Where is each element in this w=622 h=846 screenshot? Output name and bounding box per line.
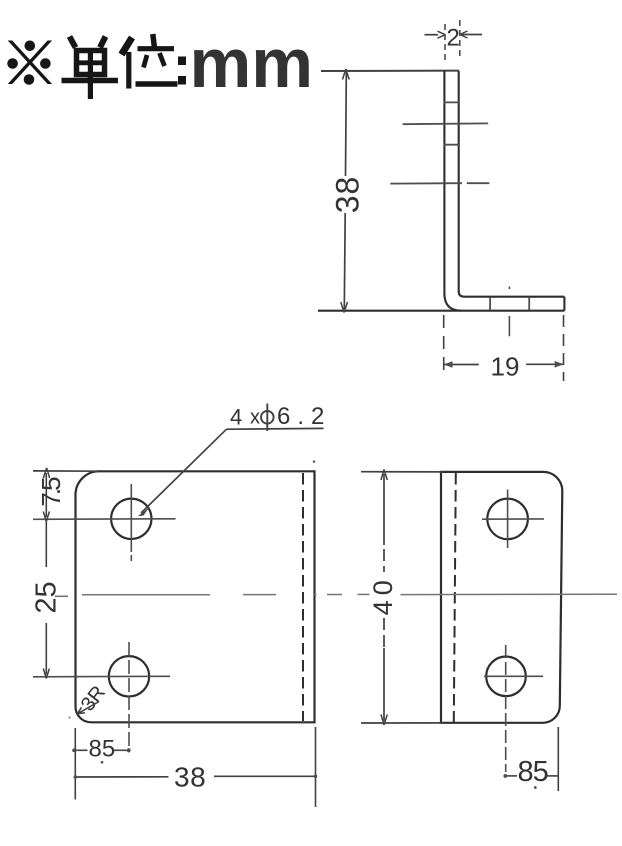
hole 4	[486, 657, 526, 697]
web tick 1	[444, 101, 460, 103]
web cross line 1	[403, 122, 489, 125]
leg top line	[464, 296, 564, 298]
svg-text:38: 38	[174, 762, 206, 793]
bend line dashed	[302, 473, 304, 721]
hole 1	[111, 499, 151, 539]
web tick 2	[444, 144, 460, 146]
svg-text:x: x	[250, 407, 260, 429]
speck	[313, 460, 316, 463]
plate centre line	[401, 593, 618, 595]
title colon	[178, 57, 186, 85]
hole 2	[109, 656, 149, 696]
title mark ※	[7, 41, 52, 85]
svg-text:40: 40	[368, 575, 398, 615]
top extension line	[321, 70, 459, 72]
svg-text:7.5: 7.5	[36, 477, 66, 507]
hole 2 vertical centre line	[128, 642, 130, 746]
svg-text:85: 85	[89, 736, 116, 763]
hole 3 vertical centre line	[507, 490, 509, 549]
top extension line	[33, 470, 98, 472]
svg-text:19: 19	[491, 352, 520, 382]
leg bottom line with baseline extension	[318, 310, 564, 312]
dimension 38 (height)	[329, 69, 365, 313]
hole 4 vertical centre line	[505, 645, 507, 772]
plate centre line	[55, 595, 68, 597]
hole 4 horizontal centre line	[484, 675, 543, 677]
dimension 19 (leg length)	[444, 315, 564, 382]
leg tick 1	[489, 297, 491, 310]
svg-text:85: 85	[518, 756, 548, 788]
dimension 2 (web thickness)	[425, 20, 483, 64]
leg tick 2	[528, 297, 530, 310]
hole 1 vertical centre line	[130, 484, 132, 552]
svg-text:6.2: 6.2	[277, 403, 331, 430]
hole callout 4xφ6.2	[138, 403, 332, 516]
dimension 38 bottom	[74, 727, 318, 807]
bend inner curve	[459, 292, 465, 297]
hole 3 horizontal centre line	[482, 518, 544, 520]
bottom extension line	[361, 722, 444, 724]
hole 3	[487, 499, 528, 540]
title kanji 単	[62, 37, 119, 100]
hole 2 horizontal centre line	[33, 675, 170, 678]
hole 1 horizontal centre line	[33, 518, 176, 521]
plate outline	[441, 472, 562, 723]
dimension 8.5 left	[72, 736, 130, 764]
svg-text:25: 25	[31, 581, 63, 613]
dimension 40	[368, 470, 398, 726]
dimension 7.5	[36, 468, 66, 522]
bend outer curve	[444, 294, 461, 311]
svg-text:2: 2	[447, 25, 460, 52]
leg end cap	[563, 297, 565, 311]
web cross line 2	[390, 182, 462, 184]
svg-text:mm: mm	[190, 24, 314, 102]
top extension line	[361, 471, 443, 473]
title kanji 位	[122, 34, 178, 89]
vertical web inner line	[458, 71, 460, 292]
3R corner label	[77, 682, 110, 716]
plate outline	[76, 471, 315, 722]
dimension 8.5 right	[504, 727, 559, 791]
svg-text:38: 38	[329, 176, 365, 214]
svg-text:4: 4	[230, 405, 242, 430]
leg centre mark	[508, 287, 510, 290]
dimension 25	[31, 521, 63, 679]
bend line dashed	[454, 473, 456, 722]
vertical web outer line	[443, 71, 445, 295]
